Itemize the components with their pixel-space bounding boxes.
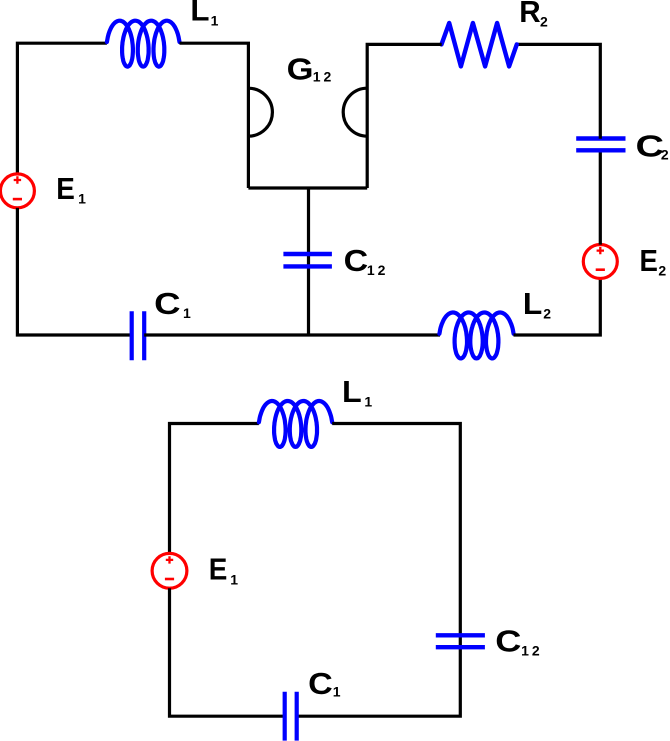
label C12 (bottom circuit) [495,623,542,658]
label E1 (bottom circuit) [209,551,239,587]
resistor R2 [442,23,517,66]
svg-text:C: C [495,623,521,658]
svg-text:E: E [56,171,75,206]
coupling G12 left semicircle [248,88,272,136]
voltage source E2 [583,245,617,279]
voltage source E1 (bottom circuit) [152,553,187,588]
svg-text:E: E [640,243,658,278]
inductor L1 (bottom circuit) [259,401,332,447]
voltage source E1 (top circuit) [0,174,34,208]
svg-text:2: 2 [540,13,548,29]
svg-text:1: 1 [183,305,191,321]
svg-text:1: 1 [230,571,238,587]
svg-text:2: 2 [658,263,666,279]
wire middle stem from G12 down to bottom wire [307,188,310,335]
svg-text:L: L [523,286,542,321]
svg-text:R: R [519,0,540,29]
svg-text:G: G [287,52,314,87]
svg-text:L: L [190,0,209,28]
wire bottom middle (C1 to L2, through C12 junction node) [144,333,440,336]
capacitor C1 (top circuit) [132,311,145,360]
label G12 [287,52,335,87]
wire from R2 left along top, down right side of G12 [367,44,442,188]
wire bottom circuit: lower-left vertical + bottom-left [170,588,286,716]
svg-text:1: 1 [364,393,372,409]
svg-text:12: 12 [367,262,389,278]
svg-text:1: 1 [211,13,219,29]
wire bottom circuit: top wire right + right vertical + bottom-right [297,424,460,717]
svg-text:12: 12 [521,643,543,659]
label E2 [640,243,667,279]
inductor L1 (top circuit) [107,21,180,67]
svg-text:12: 12 [313,69,335,85]
capacitor C12 (bottom circuit) [436,635,485,647]
svg-text:E: E [209,551,228,586]
wire lower-left vertical + bottom-left to C1 [17,208,132,335]
capacitor C1 (bottom circuit) [285,692,297,741]
wire top-right vertical + top wire to R2 [517,44,601,138]
label L1 (top circuit) [190,0,218,29]
svg-text:C: C [344,243,369,278]
label C1 (bottom circuit) [308,666,341,701]
label C2 [636,129,669,164]
wire bottom-right + right vertical up to E2 [514,279,601,336]
label E1 (top circuit) [56,171,86,206]
label C12 (top circuit) [344,243,389,278]
wire bottom of G12 box [248,186,367,189]
svg-text:C: C [636,129,665,164]
label L1 (bottom circuit) [342,374,372,409]
svg-text:L: L [342,374,362,409]
wire between E2 and C2 [599,151,602,245]
coupling G12 right semicircle [343,88,367,136]
wire bottom circuit: top-left horizontal + upper-left vertical [170,424,259,554]
capacitor C2 [576,139,625,151]
inductor L2 [439,313,513,359]
svg-text:2: 2 [661,147,669,163]
svg-text:1: 1 [78,190,86,206]
svg-text:2: 2 [543,305,551,321]
svg-text:1: 1 [333,683,341,699]
svg-text:C: C [308,666,333,701]
capacitor C12 (top circuit) [283,254,332,266]
wire from L1 to G12 left corner, down left side of G12 [180,43,249,188]
svg-text:C: C [154,286,180,321]
label R2 [519,0,548,29]
label C1 (top circuit) [154,286,191,321]
label L2 [523,286,551,321]
wire top-left horizontal + upper-left vertical [17,43,107,174]
